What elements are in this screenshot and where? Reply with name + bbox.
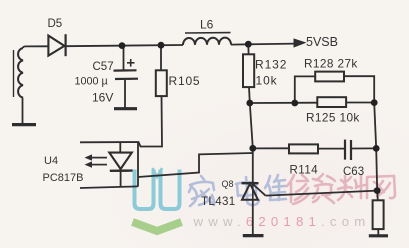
wire R125 to right rail	[346, 102, 374, 104]
opto LED cathode lead	[120, 171, 122, 187]
watermark hanzi 资	[313, 174, 335, 203]
svg-text:www.620181.com: www.620181.com	[193, 214, 371, 229]
capacitor C63 plates	[344, 140, 346, 160]
opto LED anode lead	[119, 142, 121, 152]
svg-text:1000 µ: 1000 µ	[75, 76, 108, 88]
watermark hanzi 家	[189, 176, 214, 206]
watermark logo book pages	[135, 168, 180, 209]
wire mid rail	[250, 102, 317, 104]
svg-text:U4: U4	[44, 155, 58, 167]
diode D5	[48, 36, 64, 56]
opto arrow 2	[91, 164, 107, 166]
wire right rail	[374, 103, 377, 191]
node R114 left	[249, 145, 256, 152]
capacitor C57 plates	[114, 69, 137, 71]
node R128 R125 right	[371, 99, 378, 106]
watermark hanzi 料	[338, 175, 365, 200]
capacitor C57 lead top	[121, 46, 124, 70]
opto LED cathode bar	[110, 169, 133, 172]
svg-text:L6: L6	[200, 18, 214, 32]
ground transformer	[12, 123, 36, 126]
resistor bottom-right body	[373, 200, 384, 229]
svg-text:C63: C63	[343, 166, 364, 178]
wire diode to L6	[65, 45, 183, 46]
node R105 junction	[158, 42, 165, 49]
svg-text:R132: R132	[255, 58, 287, 72]
TL431 anode lead	[252, 200, 254, 235]
wire R128 branch left	[295, 76, 315, 103]
TL431 triangle	[242, 184, 258, 200]
node R132 junction	[245, 41, 252, 48]
wire C63 to right rail	[351, 147, 376, 149]
svg-text:R125 10k: R125 10k	[306, 111, 360, 125]
node ref right	[374, 187, 381, 194]
watermark hanzi 修	[287, 175, 309, 204]
L6 label underline	[185, 32, 231, 34]
watermark hanzi 电	[236, 177, 259, 205]
resistor R132 lead bottom	[248, 87, 251, 103]
capacitor C57 lead bottom	[124, 79, 126, 108]
resistor R128 body	[315, 72, 344, 82]
svg-text:5VSB: 5VSB	[306, 35, 338, 49]
watermark hanzi 网	[367, 176, 395, 198]
opto LED triangle	[109, 153, 132, 169]
capacitor C57 plus sign	[127, 62, 135, 64]
resistor bottom-right lead top	[376, 191, 379, 201]
wire R114 lead left	[253, 147, 289, 149]
node C57 junction	[119, 42, 126, 49]
svg-text:D5: D5	[48, 18, 63, 30]
svg-text:10k: 10k	[256, 74, 278, 88]
wire opto cathode to TL431 cathode	[138, 153, 253, 177]
resistor R132 lead top	[247, 44, 249, 54]
wire L6 to arrow	[231, 44, 295, 45]
resistor R125 body	[317, 97, 346, 107]
svg-text:16V: 16V	[92, 91, 113, 105]
resistor R132 body	[243, 54, 254, 87]
TL431 cathode bar	[242, 182, 259, 184]
resistor R105 lead bottom + wire to opto	[80, 96, 162, 146]
node rail-left mid	[246, 100, 253, 107]
arrow 5VSB	[294, 38, 307, 47]
opto arrow 1	[91, 157, 107, 159]
watermark hanzi 维	[265, 175, 286, 200]
svg-text:C57: C57	[93, 61, 114, 73]
resistor bottom-right lead bottom	[377, 229, 379, 235]
ground C57	[114, 107, 137, 110]
resistor R114 body	[289, 144, 318, 153]
svg-text:R105: R105	[169, 74, 201, 88]
ground TL431	[243, 234, 264, 237]
wire coil top to diode	[23, 46, 48, 48]
opto cathode bottom wire	[80, 186, 138, 188]
inductor L6	[183, 38, 231, 45]
svg-text:TL431: TL431	[201, 196, 236, 208]
resistor R105 body	[156, 70, 167, 96]
resistor R105 lead top	[160, 45, 162, 70]
node R128 R125 left	[291, 100, 298, 107]
TL431 through lead	[252, 183, 254, 200]
wire TL431 ref to right rail	[266, 191, 378, 196]
wire R128 branch right	[344, 76, 374, 102]
wire coil bottom lead	[22, 98, 24, 124]
transformer winding coil	[18, 48, 23, 98]
wire left rail down	[250, 103, 253, 183]
svg-text:R128 27k: R128 27k	[304, 57, 358, 71]
TL431 ref diagonal	[253, 184, 266, 196]
node C63 right	[373, 145, 380, 152]
opto package right edge	[137, 142, 139, 187]
transformer winding core bar	[13, 50, 15, 97]
svg-text:PC817B: PC817B	[43, 172, 84, 184]
svg-text:Q8: Q8	[222, 179, 234, 189]
wire R114 to C63	[318, 148, 345, 150]
svg-text:R114: R114	[290, 165, 319, 177]
watermark logo green chevron	[133, 222, 182, 231]
ground bottom-right	[369, 234, 388, 237]
